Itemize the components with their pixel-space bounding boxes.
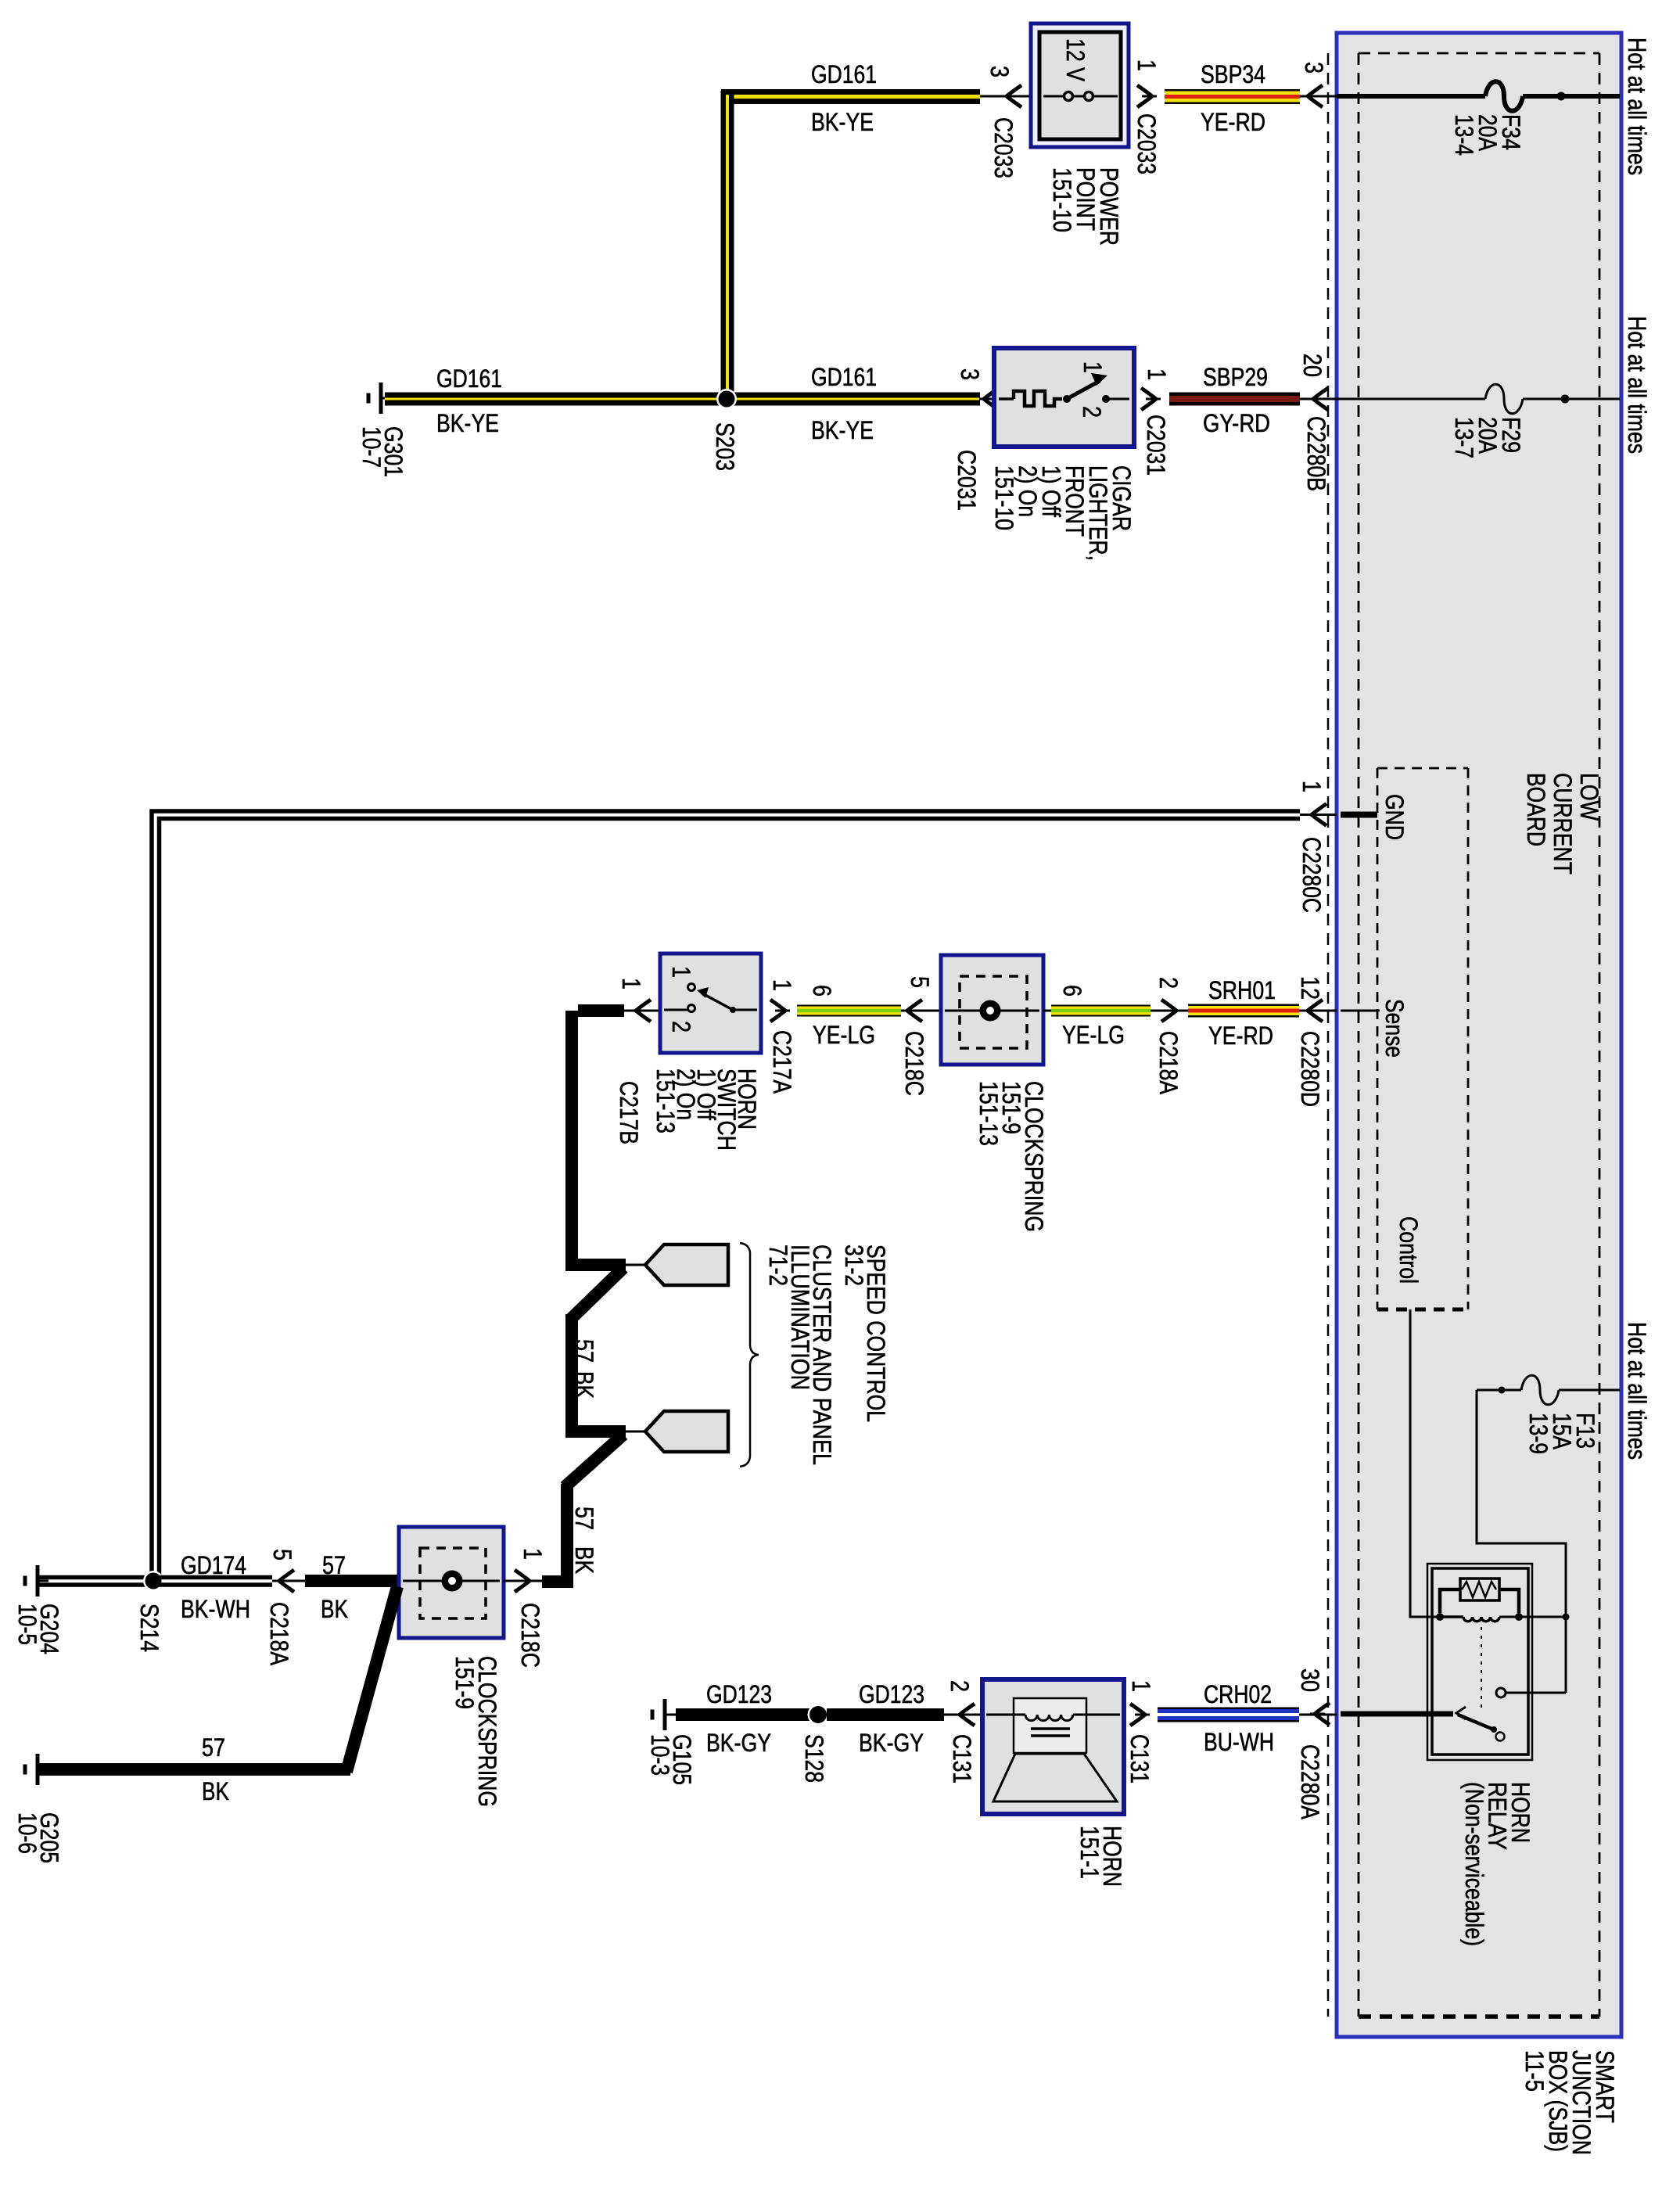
svg-text:10-3: 10-3 (646, 1734, 674, 1776)
svg-text:BK-YE: BK-YE (811, 416, 874, 444)
svg-text:BK: BK (202, 1777, 229, 1805)
svg-text:30: 30 (1296, 1668, 1324, 1692)
connector C2033 arrow (pin 3 side) (1007, 85, 1021, 107)
GND stub inside SJB (1341, 812, 1377, 818)
wire row B inside SJB (F29 feed) (1337, 398, 1485, 400)
wire lead to C218A (1043, 1010, 1051, 1012)
svg-text:57: 57 (202, 1733, 225, 1762)
svg-text:2: 2 (1078, 406, 1106, 418)
svg-text:3: 3 (985, 66, 1014, 77)
svg-text:57: 57 (322, 1551, 346, 1579)
horn bars (1031, 1727, 1070, 1730)
wire lead to C217B (624, 1010, 660, 1012)
wire 57 BK from horn switch to trunk (578, 1004, 624, 1017)
wire 57 BK trunk middle vertical (565, 1314, 578, 1431)
clockspring 2 wire through (403, 1580, 500, 1582)
svg-text:C218C: C218C (516, 1603, 544, 1668)
svg-text:12: 12 (1296, 976, 1324, 1000)
svg-text:3: 3 (1300, 62, 1328, 74)
power point terminal 1 (1064, 92, 1073, 101)
wire 57 BK to clockspring (305, 1575, 399, 1587)
svg-text:BK: BK (321, 1595, 348, 1623)
power point component box (1031, 23, 1129, 147)
clockspring 2 component box (399, 1527, 504, 1638)
svg-text:SBP29: SBP29 (1203, 363, 1268, 391)
connector C217B arrow pin 1 (636, 1000, 651, 1022)
svg-text:Hot at all times: Hot at all times (1623, 316, 1651, 454)
svg-text:GD174: GD174 (181, 1551, 246, 1579)
svg-text:10-5: 10-5 (13, 1604, 41, 1645)
svg-text:BU-WH: BU-WH (1204, 1728, 1274, 1756)
svg-text:Control: Control (1395, 1216, 1423, 1284)
connector C2280A arrow pin 30 (1315, 1703, 1330, 1725)
svg-text:C2033: C2033 (1133, 113, 1161, 174)
svg-text:Hot at all times: Hot at all times (1623, 38, 1651, 175)
horn wire through (986, 1714, 1120, 1716)
wire lead C218A to SRH01 (1151, 1010, 1188, 1012)
svg-text:2: 2 (667, 1021, 695, 1033)
svg-text:C2280C: C2280C (1298, 837, 1326, 913)
horn component box (982, 1679, 1124, 1814)
clockspring 2 dashed square (420, 1548, 486, 1618)
svg-text:SRH01: SRH01 (1208, 976, 1276, 1004)
svg-text:BK-GY: BK-GY (706, 1729, 771, 1757)
wire 57 BK bottom corner (542, 1575, 573, 1588)
svg-text:151-13: 151-13 (975, 1081, 1003, 1146)
wire GD161 left segment (BK-YE) (385, 393, 980, 406)
horn switch component box (660, 954, 761, 1053)
svg-text:10-6: 10-6 (13, 1812, 41, 1854)
svg-text:BOARD: BOARD (1522, 773, 1550, 846)
wire GD174 (BK-WH) horizontal+vertical double line (152, 811, 1300, 1580)
wire lead to speed control connector (626, 1264, 645, 1266)
relay coil terminal left (1436, 1613, 1444, 1621)
fuse F34 (1485, 81, 1523, 111)
svg-text:Hot at all times: Hot at all times (1623, 1322, 1651, 1460)
clockspring dashed square (960, 976, 1027, 1048)
relay coil terminal right (1515, 1613, 1523, 1621)
svg-text:GY-RD: GY-RD (1203, 409, 1270, 437)
wire lead to illumination connector (626, 1431, 645, 1433)
Sense stub inside SJB (1341, 1010, 1380, 1012)
smart junction box SJB outline (1337, 33, 1621, 2037)
ground G301 (379, 383, 383, 414)
wire row A inside SJB (F34 feed) (1337, 94, 1485, 99)
wire lead into SJB row B (1300, 398, 1337, 400)
horn inner rectangle (1014, 1698, 1086, 1753)
svg-text:C217B: C217B (615, 1081, 643, 1144)
cigar lighter element and switch (999, 397, 1014, 400)
connector C218A arrow pin 5 (279, 1570, 294, 1592)
power point terminal 2 (1085, 92, 1093, 101)
wire 57 BK diagonal to clockspring (346, 1586, 397, 1772)
svg-text:5: 5 (906, 976, 934, 988)
svg-text:151-9: 151-9 (451, 1656, 479, 1709)
svg-text:13-7: 13-7 (1450, 417, 1478, 458)
connector C218C arrow pin 1 (515, 1570, 529, 1592)
svg-text:GND: GND (1380, 794, 1409, 840)
ground G105 (663, 1699, 667, 1730)
clockspring 2 symbol (442, 1571, 463, 1592)
wire 57 BK branch to illumination (565, 1425, 626, 1438)
relay coil (1440, 1615, 1463, 1618)
svg-text:YE-RD: YE-RD (1208, 1022, 1273, 1050)
relay common line (1341, 1712, 1453, 1717)
relay resistor leads (1440, 1589, 1460, 1613)
wire 57 BK to G205 (39, 1763, 350, 1776)
connector C2280B arrow pin 20 (1313, 388, 1328, 410)
horn bell (993, 1754, 1117, 1801)
svg-text:2: 2 (946, 1680, 974, 1692)
connector C218A arrow pin 2 (1161, 1000, 1176, 1022)
fuse F13 (1521, 1375, 1559, 1405)
svg-text:CURRENT: CURRENT (1549, 773, 1577, 875)
svg-text:LOW: LOW (1575, 773, 1603, 821)
connector C218C arrow pin 5 (907, 1000, 922, 1022)
horn relay outer box (1427, 1564, 1532, 1760)
connector C2280 dashed face line (1327, 53, 1330, 2017)
svg-text:1: 1 (1298, 781, 1326, 792)
horn switch contacts and arm (664, 1009, 687, 1011)
svg-text:YE-RD: YE-RD (1201, 108, 1265, 136)
svg-text:C131: C131 (948, 1734, 976, 1783)
wire GD161 vertical segment (BK-YE) (721, 91, 734, 395)
svg-text:(Non-serviceable): (Non-serviceable) (1460, 1782, 1488, 1946)
svg-text:6: 6 (808, 985, 836, 997)
cigar lighter component box (994, 348, 1134, 447)
wire CRH02 (BU-WH) (1158, 1708, 1299, 1722)
svg-text:GD161: GD161 (811, 60, 877, 88)
svg-text:GD161: GD161 (436, 365, 502, 393)
svg-text:1: 1 (617, 978, 645, 990)
node on F34 wire (1557, 92, 1566, 101)
connector C2280D arrow pin 12 (1308, 1000, 1323, 1022)
wire 57 BK trunk upper vertical (565, 1011, 578, 1265)
connector C2033 arrow (pin 1 side) (1137, 85, 1152, 107)
connector C2280 arrow pin 3 (1308, 85, 1323, 107)
wire F13 to relay (1477, 1390, 1566, 1617)
wire SBP29 (GY-RD) (1169, 393, 1300, 406)
svg-text:GD123: GD123 (859, 1680, 924, 1708)
svg-text:12 V: 12 V (1061, 38, 1089, 82)
wire 57 BK diagonal 1 (569, 1268, 623, 1320)
svg-text:Sense: Sense (1380, 999, 1409, 1058)
wire GD161 top segment (BK-YE) (721, 89, 980, 104)
wire lead into SJB row G (1299, 1714, 1337, 1716)
wire lead into SJB row D (1299, 1010, 1337, 1012)
svg-text:C218C: C218C (900, 1031, 928, 1096)
svg-text:31-2: 31-2 (840, 1245, 868, 1286)
splice S214 (143, 1571, 163, 1591)
cluster illumination connector terminal (645, 1411, 728, 1452)
connector C2280C arrow pin 1 (1312, 804, 1326, 826)
svg-text:1: 1 (667, 966, 695, 978)
SJB inner dashed boundary (1359, 52, 1599, 55)
connector C2031 arrow (pin 3 side) (984, 388, 999, 410)
svg-text:1: 1 (519, 1548, 547, 1560)
svg-text:C2031: C2031 (1142, 415, 1170, 476)
svg-text:151-10: 151-10 (1048, 167, 1076, 232)
svg-text:13-4: 13-4 (1450, 114, 1478, 156)
svg-text:C2031: C2031 (953, 450, 981, 511)
wire GD174 left of S214 (BK-WH) (39, 1575, 153, 1580)
brace for speed control / illumination (740, 1243, 759, 1467)
wire 57 BK trunk lower vertical (561, 1484, 573, 1575)
wire lead into SJB row A (1300, 95, 1337, 98)
svg-text:1: 1 (1127, 1680, 1155, 1692)
svg-text:13-9: 13-9 (1524, 1413, 1553, 1454)
svg-text:11-5: 11-5 (1520, 2050, 1549, 2092)
wire GD123 right (BK-GY) (827, 1708, 944, 1721)
svg-text:C2033: C2033 (989, 117, 1018, 178)
wire lead to C218A pin5 (272, 1580, 305, 1582)
node on F29 wire (1561, 395, 1570, 404)
svg-text:GD161: GD161 (811, 363, 877, 391)
svg-text:C218A: C218A (1154, 1031, 1183, 1095)
relay NO contact (1565, 1617, 1567, 1693)
svg-text:S203: S203 (711, 422, 739, 471)
svg-text:1: 1 (768, 979, 796, 991)
svg-text:C2280A: C2280A (1296, 1744, 1324, 1820)
svg-text:6: 6 (1058, 985, 1086, 997)
clockspring symbol (980, 1000, 1001, 1022)
svg-text:BK-YE: BK-YE (811, 108, 874, 136)
svg-text:151-10: 151-10 (990, 465, 1018, 530)
horn coil (1014, 1714, 1025, 1716)
ground G205 (36, 1754, 40, 1785)
connector C217A arrow pin 1 (770, 1000, 785, 1022)
horn relay inner box (1432, 1568, 1528, 1755)
wire F13 feed (1559, 1389, 1620, 1392)
svg-text:YE-LG: YE-LG (813, 1021, 875, 1049)
relay resistor (1460, 1579, 1499, 1600)
svg-text:151-13: 151-13 (652, 1069, 680, 1133)
svg-text:151-1: 151-1 (1075, 1826, 1104, 1879)
wire lead to C2280C (1300, 814, 1337, 816)
low current board dashed box (1377, 767, 1468, 770)
control line from low current board (1410, 1309, 1436, 1617)
connector C131 arrow pin 1 (1130, 1704, 1145, 1726)
svg-text:BK-GY: BK-GY (859, 1729, 924, 1757)
wire GD174 right of S214 (BK-WH) (153, 1575, 272, 1580)
svg-text:GD123: GD123 (706, 1680, 772, 1708)
svg-text:CRH02: CRH02 (1204, 1680, 1272, 1708)
svg-text:1: 1 (1133, 59, 1161, 71)
svg-text:1: 1 (1143, 368, 1171, 380)
wire lead to C131 pin2 (944, 1714, 982, 1716)
svg-text:SBP34: SBP34 (1201, 60, 1265, 88)
clockspring wire through (945, 1010, 1039, 1012)
wire 57 BK diagonal 2 (565, 1435, 623, 1487)
splice S203 (716, 389, 737, 409)
wire YE-LG segment 1 (797, 1005, 901, 1017)
node at relay feed (1563, 1614, 1570, 1621)
wire SBP34 (YE-RD) (1165, 89, 1300, 104)
wire lead C218C to trunk (504, 1580, 547, 1582)
wire through power point (1043, 95, 1118, 98)
svg-text:1: 1 (1079, 361, 1107, 373)
wire GD123 left (BK-GY) (676, 1708, 809, 1721)
wire 57 BK branch to speed control (565, 1259, 626, 1271)
svg-text:20: 20 (1298, 354, 1326, 377)
speed control connector terminal (645, 1245, 728, 1285)
svg-text:5: 5 (268, 1549, 296, 1561)
svg-text:2: 2 (1154, 977, 1183, 989)
svg-text:BK: BK (570, 1546, 598, 1574)
svg-text:3: 3 (956, 368, 984, 380)
svg-text:71-2: 71-2 (764, 1245, 792, 1286)
relay armature (1456, 1707, 1466, 1719)
clockspring component box (941, 955, 1043, 1065)
svg-text:BK-WH: BK-WH (181, 1595, 250, 1623)
ground G204 (36, 1565, 40, 1597)
svg-text:C218A: C218A (265, 1602, 293, 1666)
svg-text:S214: S214 (135, 1604, 163, 1652)
wire lead to C2033 (980, 95, 1031, 98)
svg-text:C2280D: C2280D (1296, 1031, 1324, 1107)
svg-text:57: 57 (570, 1507, 598, 1530)
svg-text:BK-YE: BK-YE (436, 409, 499, 437)
svg-text:C2280B: C2280B (1302, 416, 1330, 491)
relay actuation dashed line (1481, 1627, 1482, 1709)
splice S128 (808, 1704, 829, 1726)
connector C131 arrow pin 2 (960, 1704, 975, 1726)
svg-text:S128: S128 (800, 1734, 828, 1783)
connector C2031 arrow (pin 1 side) (1141, 388, 1156, 410)
wire lead to C218C (901, 1010, 941, 1012)
wire lead to C2031 (980, 398, 994, 400)
svg-text:10-7: 10-7 (357, 426, 386, 468)
wire YE-LG segment 2 (1051, 1005, 1151, 1017)
svg-text:C217A: C217A (768, 1030, 796, 1094)
fuse F29 (1485, 384, 1523, 414)
wire SRH01 (YE-RD) (1188, 1004, 1299, 1018)
node on F13 wire (1499, 1387, 1506, 1394)
svg-text:YE-LG: YE-LG (1062, 1021, 1125, 1049)
svg-text:C131: C131 (1125, 1734, 1154, 1783)
